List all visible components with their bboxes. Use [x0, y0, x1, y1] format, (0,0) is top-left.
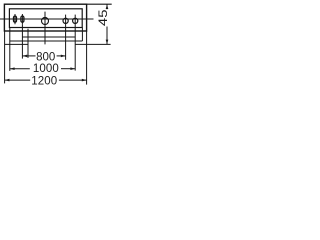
bracket line B3 (bottom reference, 45-dim bottom extension) — [5, 43, 28, 45]
arrowhead R1 left — [22, 55, 27, 58]
extension line v8 (outer right edge) — [86, 31, 88, 85]
arrowhead 45-dim up — [106, 4, 109, 9]
arrowhead R3 right — [82, 79, 87, 82]
centerline — [0, 18, 94, 20]
center wiring hole (circle with crosshair) — [42, 18, 49, 25]
extension line v2 (inner left edge) — [9, 28, 11, 71]
arrowhead 45-dim down — [106, 40, 109, 45]
mounting slot hole S2 — [21, 14, 23, 24]
45-dim lower stem — [106, 27, 108, 45]
knockout circle K2 — [73, 18, 78, 23]
dim row R1 800: right segment — [57, 55, 66, 57]
K2 vertical tick / extension line — [74, 15, 76, 71]
svg-text:800: 800 — [36, 51, 55, 63]
45-dim upper stem — [106, 4, 108, 9]
dim row R2 1000: left segment — [10, 68, 30, 70]
step-down vertical at B3-left end — [27, 29, 29, 58]
dim row R3 1200: right segment — [59, 79, 87, 81]
extension line v7 (inner right edge) — [81, 28, 83, 42]
dim row R3 1200: left segment — [5, 79, 31, 81]
extension line v3 (slot S2) — [21, 24, 23, 58]
svg-text:1200: 1200 — [31, 75, 57, 87]
45-dim top extension line — [87, 3, 112, 5]
arrowhead R1 right — [61, 55, 66, 58]
bracket line B2 (1000 step) — [10, 40, 83, 42]
mounting slot hole S1 — [14, 14, 16, 24]
bottom reference line right run (45-dim bottom extension) — [75, 43, 110, 45]
knockout circle K1 — [63, 18, 68, 23]
svg-text:1000: 1000 — [33, 63, 59, 75]
dim row R1 800: left segment — [22, 55, 35, 57]
arrowhead R3 left — [5, 79, 10, 82]
crosshair vertical / extension line — [44, 12, 46, 45]
svg-text:45: 45 — [96, 9, 110, 26]
fixture inner rectangle (1000 body) — [9, 9, 82, 28]
arrowhead R2 right — [70, 67, 75, 70]
dim row R2 1000: right segment — [61, 68, 75, 70]
arrowhead R2 left — [10, 67, 15, 70]
K1 vertical tick / extension line — [65, 15, 67, 60]
bracket line B1 (800 step) — [22, 36, 75, 38]
fixture outer rectangle (1200 overall) — [4, 4, 86, 31]
extension line v1 (outer left edge) — [4, 31, 6, 83]
